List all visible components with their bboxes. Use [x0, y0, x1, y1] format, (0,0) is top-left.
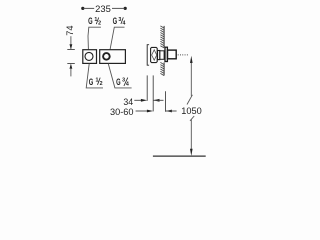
svg-text:3: 3	[122, 77, 125, 83]
svg-text:G: G	[116, 77, 121, 88]
svg-text:235: 235	[95, 3, 111, 14]
svg-text:G: G	[113, 16, 118, 27]
svg-text:2: 2	[100, 81, 103, 87]
svg-text:2: 2	[98, 20, 101, 26]
svg-text:G: G	[89, 77, 94, 88]
svg-text:74: 74	[65, 25, 75, 35]
svg-text:1050: 1050	[181, 106, 201, 116]
svg-text:30-60: 30-60	[110, 107, 134, 117]
svg-text:3: 3	[118, 17, 121, 23]
svg-text:34: 34	[123, 97, 133, 107]
svg-text:4: 4	[123, 20, 126, 26]
svg-text:G: G	[88, 16, 93, 27]
svg-text:4: 4	[126, 81, 129, 87]
